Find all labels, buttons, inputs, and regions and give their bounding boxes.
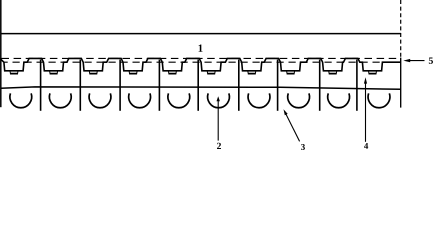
arrowhead of leader 2	[217, 96, 220, 101]
leader line for numeral 4	[365, 81, 367, 142]
cup-shaped recess arc 9	[328, 93, 350, 107]
cup-shaped recess arc 7	[248, 93, 270, 107]
interface line between element row and base band	[1, 87, 401, 89]
projection (notch) 4-type under recess 3	[89, 71, 97, 74]
reference numeral 4	[364, 143, 368, 149]
projection (notch) 4-type under recess 7	[248, 71, 256, 74]
cell divider line 1	[40, 60, 42, 111]
right edge line (solid, lower)	[400, 58, 402, 108]
cup-shaped recess arc 2	[49, 93, 71, 107]
cell divider line 7	[277, 60, 279, 111]
arrowhead of leader 5	[403, 59, 410, 62]
cell divider line 5	[197, 60, 199, 111]
leader line for numeral 2	[217, 99, 219, 141]
projection (notch) 4-type under recess 6	[207, 71, 215, 74]
projection (notch) 4-type under recess 4	[129, 71, 137, 74]
upper surface line of backing layer 1	[1, 33, 401, 35]
arrowhead of leader 4	[364, 77, 367, 83]
cup-shaped recess arc 1	[10, 93, 32, 107]
hidden edge dashed line B (shoulder level)	[4, 61, 399, 63]
projection (notch) 4-type under recess 1	[10, 71, 18, 74]
left edge line of strip	[0, 0, 2, 107]
cell divider line 9	[356, 60, 358, 111]
projection (notch) 4-type under recess 2	[50, 71, 58, 74]
cell divider line 6	[238, 60, 240, 111]
cell divider line 3	[119, 60, 121, 111]
reference numeral 3	[301, 144, 305, 150]
hidden edge dashed line A (cap-top level)	[2, 57, 401, 59]
reference numeral 5	[429, 57, 433, 63]
projection (notch) 4-type under recess 8	[287, 71, 295, 74]
projection (notch) 4-type under recess 5	[168, 71, 176, 74]
projection (notch) 4-type under recess 9	[329, 71, 337, 74]
cup-shaped recess arc 4	[129, 93, 151, 107]
cup-shaped recess arc 10	[368, 93, 390, 107]
projection (notch) 4-type under recess 10	[369, 71, 377, 74]
castellated profile of element row	[0, 58, 401, 70]
arrowhead of leader 3	[284, 109, 288, 115]
reference numeral 1 (backing layer)	[199, 45, 203, 52]
cell divider line 8	[319, 60, 321, 111]
cup-shaped recess arc 8	[288, 93, 310, 107]
cup-shaped recess arc 6	[208, 93, 230, 107]
leader line for numeral 5	[408, 60, 425, 62]
leader line for numeral 3	[285, 113, 299, 142]
cup-shaped recess arc 5	[168, 93, 190, 107]
reference numeral 2	[217, 143, 221, 149]
right section break line (dashed, upper)	[400, 0, 402, 58]
cup-shaped recess arc 3	[89, 93, 111, 107]
cell divider line 2	[79, 60, 81, 111]
cell divider line 4	[158, 60, 160, 111]
